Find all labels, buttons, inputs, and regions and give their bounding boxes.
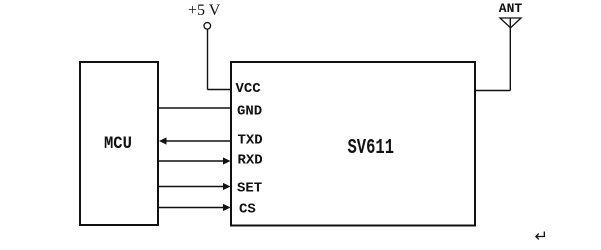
arrowhead SET into SV611 bbox=[223, 183, 231, 190]
wire SET (MCU to SV611) bbox=[159, 186, 226, 188]
wire TXD (SV611 to MCU) bbox=[163, 140, 231, 142]
svg-text:MCU: MCU bbox=[104, 134, 132, 154]
svg-text:↵: ↵ bbox=[535, 229, 548, 246]
svg-text:RXD: RXD bbox=[238, 153, 263, 169]
wire antenna vertical bbox=[509, 18, 511, 91]
IC U1 SV611 block bbox=[231, 62, 475, 226]
wire antenna to SV611 bbox=[476, 90, 511, 92]
svg-text:+5 V: +5 V bbox=[188, 2, 221, 19]
svg-text:SV611: SV611 bbox=[348, 137, 395, 160]
arrowhead RXD into SV611 bbox=[223, 157, 231, 164]
arrowhead TXD into MCU bbox=[159, 137, 167, 144]
wire GND (MCU to SV611) bbox=[159, 107, 231, 109]
+5V supply terminal circle bbox=[204, 23, 211, 30]
svg-text:VCC: VCC bbox=[236, 81, 262, 97]
antenna symbol triangle bbox=[500, 18, 521, 28]
svg-text:CS: CS bbox=[239, 202, 256, 218]
arrowhead CS into SV611 bbox=[223, 204, 231, 211]
label MCU bbox=[104, 134, 132, 154]
svg-text:GND: GND bbox=[237, 104, 262, 120]
svg-text:ANT: ANT bbox=[499, 1, 523, 16]
wire +5V vertical drop bbox=[207, 29, 209, 90]
MCU block U2 bbox=[80, 62, 158, 225]
wire CS (MCU to SV611) bbox=[159, 207, 226, 209]
wire VCC feed bbox=[208, 89, 231, 91]
wire RXD (MCU to SV611) bbox=[159, 160, 226, 162]
svg-text:TXD: TXD bbox=[238, 133, 263, 149]
svg-text:SET: SET bbox=[237, 181, 262, 197]
